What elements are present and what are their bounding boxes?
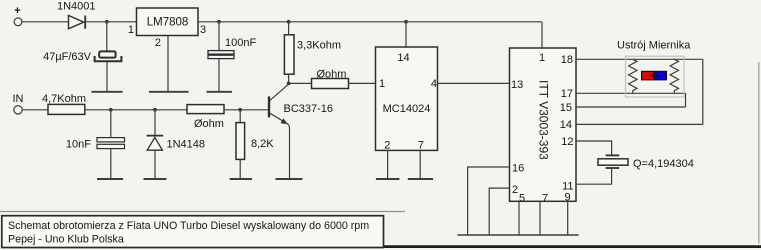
wire base resistor to transistor base [224, 109, 268, 111]
wire 8,2K to ground [239, 159, 241, 179]
svg-text:ITT V3003-393: ITT V3003-393 [537, 80, 551, 160]
separator gray horizontal [0, 211, 405, 213]
ground under 10nF [97, 178, 123, 180]
diode D1 1N4001 [57, 1, 96, 29]
wire junction down to 8,2K [239, 110, 241, 123]
node junction MC14024 pin14 [404, 20, 408, 24]
svg-text:Q=4,194304: Q=4,194304 [633, 158, 694, 170]
wire ITT pin9 [567, 201, 569, 235]
svg-text:IN: IN [13, 93, 24, 105]
svg-text:5: 5 [519, 193, 525, 205]
svg-text:10nF: 10nF [66, 139, 91, 151]
wire ITT pin16 [468, 167, 510, 235]
crystal Q 4,194304 [598, 155, 694, 170]
wire ITT pin7 [539, 201, 541, 235]
ground under emitter [276, 178, 303, 180]
ground under 1N4148 [144, 178, 167, 180]
wire ITT pin12 to crystal [576, 141, 612, 155]
svg-text:1N4001: 1N4001 [57, 1, 96, 13]
node + (positive supply terminal) [14, 5, 22, 26]
wire 47uF to ground [106, 61, 108, 92]
wire crystal to ITT pin11 [576, 168, 612, 184]
svg-text:13: 13 [511, 79, 523, 91]
svg-text:1: 1 [539, 52, 545, 64]
svg-text:7: 7 [418, 139, 424, 151]
ground under MC pin2 [376, 178, 400, 180]
svg-text:Schemat obrotomierza z Fiata U: Schemat obrotomierza z Fiata UNO Turbo D… [8, 220, 369, 232]
op-amp U2 ITT V3003-393 [510, 48, 577, 205]
resistor R2 3,3Kohm [284, 35, 341, 74]
svg-text:4: 4 [431, 78, 437, 90]
ground under 47uF [92, 91, 123, 93]
node junction 8,2K [238, 108, 242, 112]
resistor meter coil right (zigzag) [670, 59, 678, 93]
wire meter loop right side [702, 59, 704, 124]
wire ITT pin2 [489, 188, 509, 235]
svg-text:1: 1 [379, 78, 385, 90]
node junction 100nF [217, 20, 221, 24]
svg-text:14: 14 [560, 119, 572, 131]
resistor R5 0ohm (to counter) [312, 69, 349, 89]
diode D2 1N4148 [147, 136, 206, 151]
wire 100nF to ground [218, 59, 220, 92]
wire junction down to 100nF [218, 22, 220, 51]
node junction 1N4148 [153, 108, 157, 112]
wire ITT pin15 [576, 106, 686, 108]
ground under 100nF [207, 91, 233, 93]
wire junction down to 10nF [110, 110, 112, 138]
wire ITT pin17 to meter bottom [576, 92, 686, 94]
op-amp U1 MC14024 counter [376, 47, 438, 151]
wire signal row 4,7K to base resistor [85, 109, 187, 111]
wire junction down to 1N4148 [154, 110, 156, 136]
svg-text:+: + [14, 5, 20, 17]
svg-text:15: 15 [560, 102, 572, 114]
separator gray vertical right [758, 62, 760, 244]
wire MC14024 pin4 to ITT pin13 [438, 82, 510, 84]
svg-text:1N4148: 1N4148 [167, 139, 206, 151]
svg-text:18: 18 [561, 54, 573, 66]
svg-text:BC337-16: BC337-16 [284, 103, 334, 115]
wire 3,3K to collector node [288, 74, 290, 83]
svg-text:7: 7 [542, 193, 548, 205]
wire step pin17-pin15 [685, 93, 687, 107]
magnet needle red half [642, 71, 654, 79]
svg-text:14: 14 [397, 52, 409, 64]
resistor meter coil left (zigzag) [629, 59, 637, 93]
svg-text:16: 16 [512, 163, 524, 175]
wire IN to 4,7Kohm [22, 109, 48, 111]
transistor Q1 BC337-16 [269, 84, 333, 179]
wire junction down to 47uF [106, 22, 108, 52]
svg-text:MC14024: MC14024 [383, 103, 431, 115]
wire 0ohm to MC14024 pin1 [349, 82, 376, 84]
meter assembly Ustroj Miernika [617, 40, 691, 98]
wire bottom common rail [457, 234, 578, 236]
regulator U3 LM7808 [137, 8, 199, 36]
svg-text:8,2K: 8,2K [251, 138, 274, 150]
svg-text:Ustrój Miernika: Ustrój Miernika [617, 40, 691, 52]
wire +8V rail from LM7808 pin3 to ITT pin1 corner [198, 21, 542, 23]
node collector junction [287, 82, 291, 86]
ground under 8,2K [230, 178, 252, 180]
wire MC14024 pin7 to ground [419, 150, 421, 179]
ground under MC pin7 [408, 178, 433, 180]
svg-text:47µF/63V: 47µF/63V [43, 51, 92, 63]
svg-text:100nF: 100nF [225, 37, 256, 49]
resistor R4 8,2K [236, 123, 274, 160]
svg-text:12: 12 [561, 136, 573, 148]
wire junction down to 3,3Kohm [288, 22, 290, 35]
capacitor C3 10nF [66, 138, 125, 151]
wire ITT pin5 [518, 201, 520, 235]
title box [2, 216, 384, 248]
bottom dark bar [384, 245, 761, 248]
svg-text:Pepej - Uno Klub Polska: Pepej - Uno Klub Polska [8, 234, 124, 246]
wire 10nF to ground [110, 148, 112, 179]
wire ITT pin18 to meter top [576, 58, 703, 60]
wire diode to LM7808 pin1 (8V rail top) [85, 21, 136, 23]
needle arrow [649, 73, 659, 78]
svg-text:LM7808: LM7808 [147, 17, 189, 29]
svg-text:1: 1 [128, 24, 134, 36]
node junction 3,3Kohm [287, 20, 291, 24]
svg-text:17: 17 [561, 88, 573, 100]
resistor R1 4,7Kohm [42, 93, 86, 114]
magnet needle blue half [654, 71, 666, 79]
svg-text:Øohm: Øohm [194, 118, 224, 130]
svg-text:3: 3 [200, 24, 206, 36]
node IN terminal [13, 93, 24, 114]
wire rail down to ITT pin1 [541, 22, 543, 48]
resistor R3 0ohm (base) [187, 105, 224, 130]
node junction 10nF [109, 108, 113, 112]
wire ITT pin14 loop return [576, 123, 703, 125]
capacitor C2 100nF [208, 37, 256, 59]
svg-text:2: 2 [155, 37, 161, 49]
ground under LM7808 pin2 [149, 91, 189, 93]
capacitor C1 47uF/63V (electrolytic) [43, 51, 121, 63]
wire MC14024 pin2 to ground [387, 150, 389, 179]
svg-text:3,3Kohm: 3,3Kohm [297, 40, 341, 52]
svg-text:2: 2 [384, 139, 390, 151]
svg-text:4,7Kohm: 4,7Kohm [42, 93, 86, 105]
wire rail down to MC14024 pin14 [405, 22, 407, 47]
wire terminal to diode [22, 21, 69, 23]
svg-text:2: 2 [512, 184, 518, 196]
node junction 47uF [105, 20, 109, 24]
wire 1N4148 to ground [154, 150, 156, 179]
wire LM7808 pin2 to ground [167, 36, 169, 92]
wire collector node to 0ohm resistor [289, 82, 312, 84]
